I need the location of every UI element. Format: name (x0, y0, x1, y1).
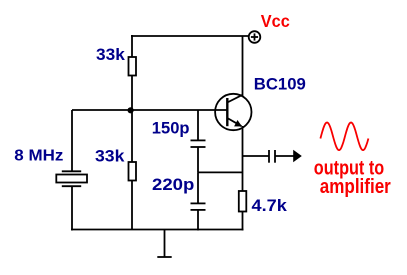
svg-text:33k: 33k (96, 46, 126, 64)
svg-text:amplifier: amplifier (320, 176, 391, 198)
svg-text:BC109: BC109 (254, 75, 306, 93)
svg-text:220p: 220p (152, 176, 194, 194)
svg-text:4.7k: 4.7k (252, 196, 288, 215)
svg-text:33k: 33k (95, 147, 125, 165)
svg-text:Vcc: Vcc (261, 11, 290, 31)
svg-text:8 MHz: 8 MHz (14, 147, 63, 164)
svg-text:150p: 150p (152, 120, 190, 138)
